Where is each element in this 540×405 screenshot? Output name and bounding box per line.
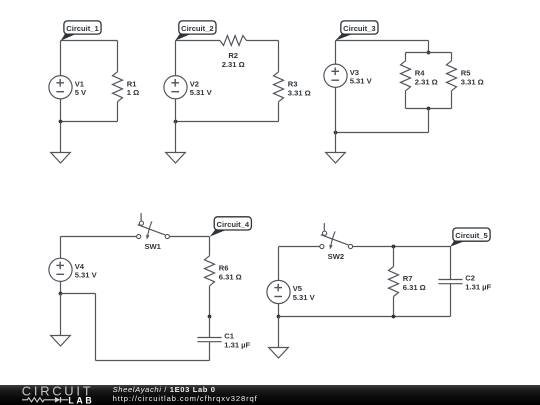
resistor R2 2.31 Ohm: [220, 36, 246, 69]
wire: V5 top lead: [278, 247, 280, 281]
wire: C2 top lead: [450, 247, 452, 280]
svg-text:V2: V2: [190, 79, 199, 88]
wire: C4 bottom rail: [96, 360, 210, 362]
svg-text:3.31 Ω: 3.31 Ω: [461, 77, 484, 86]
svg-text:5.31 V: 5.31 V: [293, 293, 316, 302]
CircuitLab logo: [0, 385, 110, 405]
wire: R3 bottom lead: [278, 102, 280, 122]
wire: V2 top lead: [175, 41, 177, 77]
wire: C2 top-right segment: [246, 40, 278, 42]
wire: C2 bottom rail: [176, 121, 279, 123]
resistor R5 3.31 Ohm: [447, 61, 484, 91]
svg-text:6.31 Ω: 6.31 Ω: [403, 283, 426, 292]
svg-text:Circuit_3: Circuit_3: [343, 24, 376, 33]
voltage source V3 5.31V: [324, 64, 373, 87]
wire: C4 top-right segment: [169, 236, 209, 238]
junction: C2 ground node: [174, 120, 178, 124]
wire: V5 bottom lead: [278, 303, 280, 316]
logo diode: [55, 397, 60, 403]
svg-text:LAB: LAB: [68, 395, 94, 405]
voltage source V4 5.31V: [49, 258, 98, 281]
wire: R5 top lead: [451, 53, 453, 61]
resistor R7 6.31 Ohm: [389, 267, 426, 297]
svg-text:1.31 µF: 1.31 µF: [465, 282, 491, 291]
wire: C2 top-left segment: [176, 40, 221, 42]
junction: R7 bottom node: [392, 315, 396, 319]
svg-text:V4: V4: [75, 262, 85, 271]
svg-text:C2: C2: [465, 274, 475, 283]
wire: C4 return top segment: [61, 293, 96, 295]
svg-text:SW1: SW1: [144, 242, 161, 251]
wire: C5 top-right segment: [353, 246, 451, 248]
resistor R1 1 Ohm: [113, 72, 140, 102]
junction: parallel bottom: [427, 107, 431, 111]
svg-text:5.31 V: 5.31 V: [190, 88, 213, 97]
svg-text:R1: R1: [127, 79, 137, 88]
wire: V3 bottom lead: [335, 87, 337, 133]
voltage source V5 5.31V: [267, 280, 316, 303]
wire: to ground 2: [175, 122, 177, 153]
label Circuit_1: [61, 21, 101, 41]
wire: C4 return drop: [95, 294, 97, 361]
svg-text:V3: V3: [350, 68, 359, 77]
wire: R5 bottom lead: [451, 91, 453, 109]
label Circuit_4: [210, 217, 252, 237]
junction: R6-C1 node: [208, 315, 212, 319]
junction: C1 ground node: [59, 120, 63, 124]
ground: circuit 3: [326, 153, 346, 164]
voltage source V2 5.31V: [164, 76, 213, 99]
wire: parallel top rail: [406, 52, 452, 54]
wire: R3 top lead: [278, 41, 280, 72]
wire: V1 bottom lead: [60, 99, 62, 122]
wire: V1 top lead: [60, 41, 62, 77]
logo resistor squiggle: [22, 398, 55, 402]
wire: R4 top lead: [405, 53, 407, 61]
switch SW2: [320, 223, 353, 261]
svg-text:C1: C1: [224, 332, 234, 341]
ground: circuit 4: [51, 336, 71, 347]
wire: R4 bottom lead: [405, 91, 407, 109]
wire: R6 bottom lead: [209, 286, 211, 317]
svg-text:6.31 Ω: 6.31 Ω: [219, 272, 242, 281]
wire: C4 top-left segment: [61, 236, 137, 238]
junction: R7 top node: [392, 245, 396, 249]
wire: C1 bottom lead: [209, 342, 211, 361]
wire: C1 top lead: [209, 317, 211, 338]
svg-text:Circuit_5: Circuit_5: [455, 231, 488, 240]
voltage source V1 5V: [49, 76, 87, 99]
svg-text:R5: R5: [461, 69, 471, 78]
wire: R7 bottom lead: [393, 297, 395, 317]
svg-text:R6: R6: [219, 264, 229, 273]
resistor R6 6.31 Ohm: [205, 256, 242, 286]
svg-text:V5: V5: [293, 284, 303, 293]
svg-text:3.31 Ω: 3.31 Ω: [288, 88, 311, 97]
svg-text:R3: R3: [288, 80, 298, 89]
wire: C5 top-left segment: [279, 246, 320, 248]
wire: R6 top lead: [209, 237, 211, 256]
wire: drop from parallel pair: [428, 109, 430, 133]
svg-text:1.31 µF: 1.31 µF: [224, 340, 250, 349]
junction: parallel top: [427, 51, 431, 55]
wire: V3 top lead: [335, 41, 337, 65]
wire: C1 bottom rail: [61, 121, 118, 123]
ground: circuit 1: [51, 153, 71, 164]
svg-text:5.31 V: 5.31 V: [350, 77, 373, 86]
wire: R7 top lead: [393, 247, 395, 267]
svg-text:V1: V1: [75, 79, 85, 88]
capacitor C2 1.31 uF: [438, 274, 491, 292]
footer bar: [0, 385, 540, 405]
wire: C5 bottom rail: [279, 316, 451, 318]
wire: V4 top lead: [60, 237, 62, 259]
wire: C1 top rail: [61, 40, 118, 42]
switch SW1: [137, 213, 170, 251]
ground: circuit 2: [166, 153, 186, 164]
svg-text:R7: R7: [403, 274, 413, 283]
wire: R1 top lead: [117, 41, 119, 72]
wire: V4 bottom lead: [60, 281, 62, 293]
svg-text:Circuit_2: Circuit_2: [181, 24, 214, 33]
svg-text:2.31 Ω: 2.31 Ω: [415, 77, 438, 86]
capacitor C1 1.31 uF: [197, 332, 250, 350]
svg-text:Circuit_1: Circuit_1: [66, 24, 99, 33]
svg-text:5 V: 5 V: [75, 88, 87, 97]
wire: parallel bottom rail: [406, 108, 452, 110]
wire: to ground 4: [60, 294, 62, 336]
ground: circuit 5: [269, 348, 289, 359]
wire: to ground 3: [335, 133, 337, 153]
label Circuit_2: [175, 21, 216, 41]
svg-text:SW2: SW2: [328, 252, 344, 261]
junction: C4 ground node: [59, 292, 63, 296]
svg-text:5.31 V: 5.31 V: [75, 271, 98, 280]
wire: to ground 1: [60, 122, 62, 153]
wire: V2 bottom lead: [175, 99, 177, 122]
wire: C3 top rail: [336, 40, 429, 42]
footer metadata text: [113, 385, 258, 404]
resistor R4 2.31 Ohm: [401, 61, 438, 91]
label Circuit_5: [450, 228, 490, 247]
label Circuit_3: [335, 21, 378, 41]
node A: circuit 1 top-left corner: [61, 41, 118, 77]
wire: to ground 5: [278, 317, 280, 348]
junction: C5 ground node: [277, 315, 281, 319]
svg-text:R2: R2: [228, 51, 238, 60]
svg-text:2.31 Ω: 2.31 Ω: [222, 60, 245, 69]
wire: C3 bottom rail: [336, 132, 429, 134]
wire: drop to parallel pair: [428, 41, 430, 53]
svg-text:R4: R4: [415, 69, 425, 78]
svg-text:Circuit_4: Circuit_4: [217, 220, 250, 229]
wire: C2 bottom lead: [450, 284, 452, 317]
resistor R3 3.31 Ohm: [274, 72, 311, 102]
svg-text:1 Ω: 1 Ω: [127, 88, 139, 97]
junction: C3 ground node: [334, 131, 338, 135]
wire: R1 bottom lead: [117, 102, 119, 122]
